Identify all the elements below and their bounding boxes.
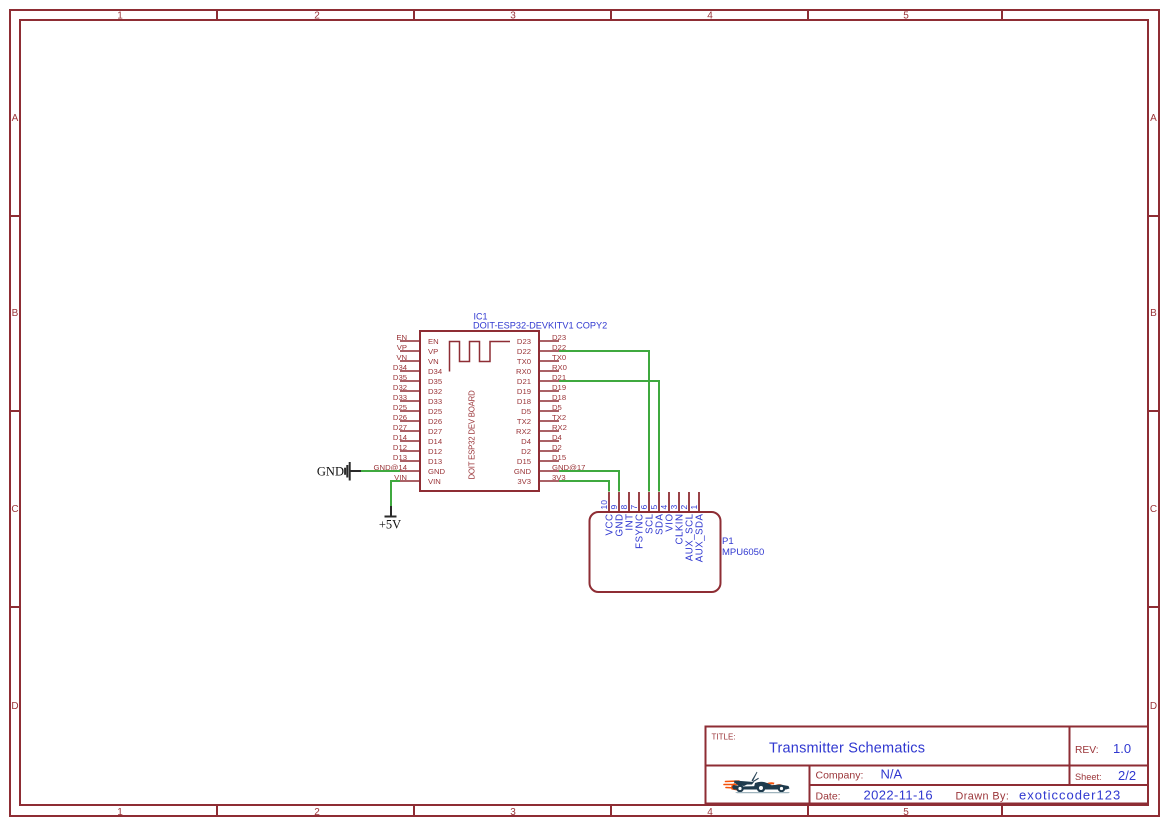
svg-text:D25: D25 — [393, 403, 407, 412]
svg-text:D33: D33 — [393, 393, 407, 402]
svg-text:Date:: Date: — [816, 791, 841, 803]
svg-text:GND: GND — [428, 467, 446, 476]
svg-text:D: D — [1150, 701, 1157, 712]
svg-text:D23: D23 — [517, 337, 531, 346]
svg-text:P1: P1 — [722, 536, 734, 547]
svg-text:7: 7 — [629, 505, 639, 510]
svg-text:D4: D4 — [552, 433, 563, 442]
svg-text:D23: D23 — [552, 333, 566, 342]
svg-text:1.0: 1.0 — [1113, 741, 1131, 756]
svg-text:D33: D33 — [428, 397, 442, 406]
svg-text:D22: D22 — [517, 347, 531, 356]
svg-text:EN: EN — [428, 337, 439, 346]
svg-text:N/A: N/A — [881, 767, 903, 782]
svg-text:D5: D5 — [521, 407, 531, 416]
svg-text:3: 3 — [669, 505, 679, 510]
svg-text:2: 2 — [314, 11, 320, 22]
svg-text:5: 5 — [903, 11, 909, 22]
svg-text:D13: D13 — [393, 453, 407, 462]
svg-text:TX2: TX2 — [517, 417, 531, 426]
svg-text:Sheet:: Sheet: — [1075, 772, 1102, 782]
svg-text:D32: D32 — [393, 383, 407, 392]
svg-text:MPU6050: MPU6050 — [722, 547, 764, 558]
svg-text:Company:: Company: — [816, 770, 864, 782]
svg-text:DOIT ESP32 DEV BOARD: DOIT ESP32 DEV BOARD — [468, 390, 477, 480]
svg-text:2022-11-16: 2022-11-16 — [864, 788, 934, 803]
svg-text:D26: D26 — [393, 413, 407, 422]
svg-text:AUX_SDA: AUX_SDA — [695, 513, 706, 562]
svg-text:10: 10 — [599, 500, 609, 510]
svg-text:D34: D34 — [428, 367, 443, 376]
svg-text:D21: D21 — [517, 377, 531, 386]
svg-text:TX0: TX0 — [517, 357, 531, 366]
svg-text:D2: D2 — [521, 447, 531, 456]
svg-text:Drawn By:: Drawn By: — [956, 791, 1010, 803]
svg-text:D5: D5 — [552, 403, 562, 412]
svg-text:D35: D35 — [428, 377, 442, 386]
svg-text:D27: D27 — [428, 427, 442, 436]
svg-text:D18: D18 — [517, 397, 531, 406]
svg-text:VN: VN — [396, 353, 407, 362]
svg-text:D35: D35 — [393, 373, 407, 382]
svg-text:RX2: RX2 — [516, 427, 531, 436]
svg-text:D19: D19 — [517, 387, 531, 396]
svg-text:2: 2 — [314, 807, 320, 818]
svg-text:3: 3 — [510, 11, 516, 22]
svg-text:4: 4 — [707, 807, 713, 818]
svg-text:D13: D13 — [428, 457, 442, 466]
svg-text:DOIT-ESP32-DEVKITV1 COPY2: DOIT-ESP32-DEVKITV1 COPY2 — [473, 321, 607, 331]
svg-text:D25: D25 — [428, 407, 442, 416]
svg-text:9: 9 — [609, 505, 619, 510]
svg-text:1: 1 — [117, 807, 123, 818]
svg-text:D27: D27 — [393, 423, 407, 432]
svg-text:VP: VP — [397, 343, 407, 352]
svg-text:5: 5 — [903, 807, 909, 818]
svg-text:D32: D32 — [428, 387, 442, 396]
svg-text:D2: D2 — [552, 443, 562, 452]
svg-text:REV:: REV: — [1075, 745, 1099, 756]
svg-text:VP: VP — [428, 347, 438, 356]
svg-text:2/2: 2/2 — [1118, 768, 1136, 783]
svg-text:3V3: 3V3 — [517, 477, 531, 486]
svg-text:1: 1 — [117, 11, 123, 22]
svg-text:VN: VN — [428, 357, 439, 366]
svg-text:6: 6 — [639, 505, 649, 510]
svg-text:D14: D14 — [428, 437, 443, 446]
svg-text:D12: D12 — [428, 447, 442, 456]
svg-text:C: C — [11, 504, 18, 515]
svg-text:1: 1 — [689, 505, 699, 510]
svg-text:B: B — [12, 308, 19, 319]
svg-text:D15: D15 — [517, 457, 531, 466]
svg-text:RX0: RX0 — [552, 363, 567, 372]
svg-text:D26: D26 — [428, 417, 442, 426]
svg-text:D: D — [11, 701, 18, 712]
svg-text:D15: D15 — [552, 453, 566, 462]
svg-text:GND: GND — [317, 465, 344, 479]
svg-text:TX2: TX2 — [552, 413, 566, 422]
svg-text:4: 4 — [707, 11, 713, 22]
svg-text:4: 4 — [659, 505, 669, 510]
svg-text:VIN: VIN — [428, 477, 441, 486]
svg-text:5: 5 — [649, 505, 659, 510]
svg-text:3: 3 — [510, 807, 516, 818]
svg-text:8: 8 — [619, 505, 629, 510]
svg-text:RX2: RX2 — [552, 423, 567, 432]
svg-text:D12: D12 — [393, 443, 407, 452]
svg-text:B: B — [1150, 308, 1157, 319]
svg-text:exoticcoder123: exoticcoder123 — [1019, 788, 1121, 803]
svg-text:D19: D19 — [552, 383, 566, 392]
svg-text:D14: D14 — [393, 433, 408, 442]
svg-text:TITLE:: TITLE: — [712, 733, 736, 742]
svg-text:Transmitter Schematics: Transmitter Schematics — [769, 741, 925, 757]
svg-text:A: A — [1150, 113, 1157, 124]
svg-text:RX0: RX0 — [516, 367, 531, 376]
svg-text:2: 2 — [679, 505, 689, 510]
svg-text:D4: D4 — [521, 437, 532, 446]
svg-text:EN: EN — [396, 333, 407, 342]
svg-text:C: C — [1150, 504, 1157, 515]
svg-text:TX0: TX0 — [552, 353, 566, 362]
svg-text:A: A — [12, 113, 19, 124]
svg-text:GND: GND — [514, 467, 532, 476]
svg-text:D18: D18 — [552, 393, 566, 402]
svg-text:+5V: +5V — [379, 518, 401, 532]
svg-text:D34: D34 — [393, 363, 408, 372]
